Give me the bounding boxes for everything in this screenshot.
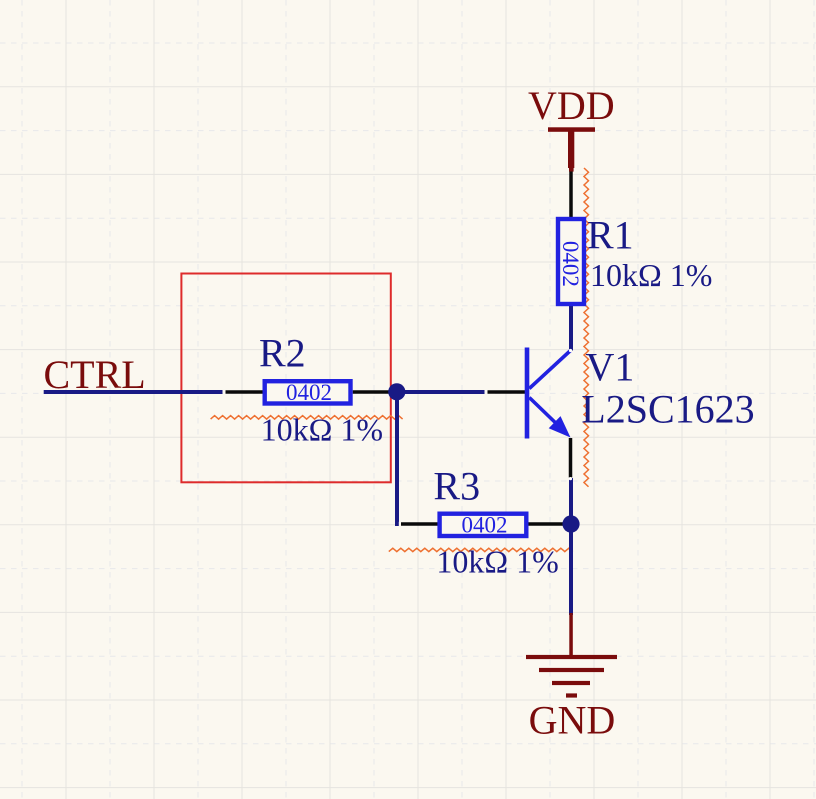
svg-text:10kΩ 1%: 10kΩ 1% xyxy=(590,257,712,293)
svg-text:10kΩ 1%: 10kΩ 1% xyxy=(436,544,558,580)
svg-text:R3: R3 xyxy=(433,464,480,509)
svg-text:R1: R1 xyxy=(587,212,634,257)
svg-text:L2SC1623: L2SC1623 xyxy=(581,387,754,432)
svg-text:0402: 0402 xyxy=(286,380,332,405)
svg-text:R2: R2 xyxy=(259,331,306,376)
svg-text:0402: 0402 xyxy=(462,512,508,537)
svg-text:VDD: VDD xyxy=(528,83,615,128)
svg-text:10kΩ 1%: 10kΩ 1% xyxy=(261,411,383,447)
svg-text:V1: V1 xyxy=(586,345,635,390)
svg-text:0402: 0402 xyxy=(558,241,583,287)
svg-text:GND: GND xyxy=(529,698,616,743)
svg-text:CTRL: CTRL xyxy=(44,352,146,397)
